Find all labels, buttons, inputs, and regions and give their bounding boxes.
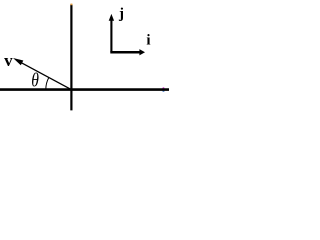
svg-text:θ: θ (31, 69, 39, 91)
svg-text:i: i (146, 32, 150, 48)
svg-text:j: j (118, 6, 124, 22)
svg-text:v: v (4, 51, 13, 70)
